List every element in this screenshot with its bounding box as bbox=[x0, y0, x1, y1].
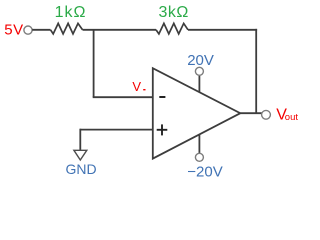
svg-text:20V: 20V bbox=[187, 52, 214, 69]
wire positive supply stub bbox=[198, 75, 200, 92]
svg-text:5V: 5V bbox=[4, 22, 24, 39]
resistor R2 3kOhm bbox=[156, 23, 188, 34]
wire R2 to feedback corner bbox=[188, 29, 257, 31]
terminal -20V bbox=[195, 153, 203, 161]
svg-text:out: out bbox=[285, 112, 299, 123]
svg-text:3kΩ: 3kΩ bbox=[159, 4, 189, 21]
wire output bbox=[240, 112, 262, 114]
wire R1 to R2 bbox=[83, 29, 157, 31]
terminal Vout bbox=[262, 110, 271, 119]
wire junction down from input rail bbox=[93, 30, 95, 97]
svg-text:−20V: −20V bbox=[187, 164, 222, 181]
wire negative supply stub bbox=[198, 135, 200, 154]
wire 5V terminal to R1 bbox=[32, 29, 50, 31]
terminal 20V bbox=[195, 67, 203, 75]
ground symbol bbox=[74, 150, 87, 160]
svg-text:GND: GND bbox=[66, 161, 97, 177]
svg-text:1kΩ: 1kΩ bbox=[55, 4, 87, 21]
op-amp minus sign bbox=[159, 96, 165, 98]
svg-text:V: V bbox=[132, 79, 141, 94]
wire noninverting input bbox=[80, 129, 153, 131]
wire inverting input bbox=[93, 96, 153, 98]
op-amp plus sign bbox=[157, 129, 168, 131]
wire to ground bbox=[79, 129, 81, 150]
terminal 5V bbox=[24, 26, 32, 34]
V- subscript minus bbox=[143, 89, 145, 91]
resistor R1 1kOhm bbox=[51, 23, 83, 34]
wire feedback vertical down to output node bbox=[255, 29, 257, 113]
op-amp U1 bbox=[153, 68, 241, 158]
